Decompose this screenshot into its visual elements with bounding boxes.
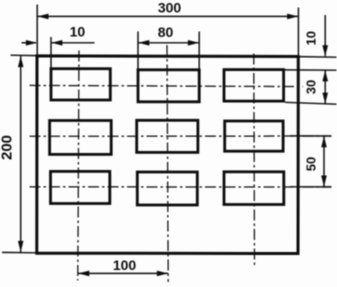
svg-text:80: 80 [158, 24, 174, 40]
dimension 200: bottom extension line [2, 251, 36, 253]
svg-text:100: 100 [113, 257, 137, 273]
hole row2 col1 [50, 121, 112, 155]
dimension 200: up arrowhead [18, 56, 24, 67]
dimension 200: down arrowhead [18, 241, 24, 252]
dimension 10 (top left): extension line at hole edge [50, 37, 52, 68]
plate outline (outer rectangle of part) [37, 56, 299, 254]
dimension 30: hole bottom extension line [285, 102, 337, 104]
centerline row 2 (horizontal dash-dot) [30, 135, 332, 137]
dimension 80: left arrowhead [138, 40, 149, 46]
dimension 10 (top left): right-pointing arrowhead [26, 40, 37, 46]
dimension 80: right extension line [198, 32, 200, 69]
hole row1 col1 [51, 69, 110, 100]
svg-text:300: 300 [158, 0, 182, 16]
centerline row 1 (horizontal dash-dot) [30, 85, 304, 86]
dimension 50: top extension line (solid, right of plate) [290, 135, 332, 137]
dimension 10 (top left): outside arrow line [22, 42, 37, 44]
centerline column 2 (vertical dash-dot) [167, 45, 168, 282]
centerline row 3 (horizontal dash-dot) [30, 186, 332, 188]
svg-text:10: 10 [70, 24, 86, 40]
dimension 100: left arrowhead [78, 271, 89, 277]
svg-text:200: 200 [0, 135, 16, 160]
dimension 300: dimension line [37, 15, 298, 17]
dimension 300: right arrowhead [287, 14, 298, 20]
dimension 50: up arrowhead [321, 136, 327, 147]
dimension 30: hole top extension line [284, 69, 337, 71]
dimension 200: top extension line [11, 54, 37, 56]
hole row3 col1 [51, 171, 110, 203]
dimension 30: up arrowhead [322, 70, 328, 81]
dimension 10 (top left): tail line [51, 42, 94, 44]
dimension 80: left extension line [137, 32, 139, 69]
dimension 50: down arrowhead [321, 176, 327, 187]
dimension 100: right arrowhead [157, 271, 168, 277]
dimension 50: bottom extension line (solid, right of plate) [290, 186, 332, 188]
dimension 50: dimension line [323, 136, 325, 187]
dimension 300: left arrowhead [37, 14, 48, 20]
svg-text:10: 10 [303, 31, 318, 45]
svg-text:30: 30 [304, 80, 319, 94]
dimension 10 (top right): down arrowhead [322, 45, 328, 56]
dimension 300: left extension line [36, 5, 38, 56]
svg-text:50: 50 [303, 157, 318, 171]
dimension 80: right arrowhead [188, 40, 199, 46]
centerline column 1 (vertical dash-dot) [78, 51, 79, 281]
hole row1 col2 [138, 70, 199, 102]
dimension 10 (top left): left-pointing arrowhead [51, 40, 62, 46]
dimension 200: dimension line [20, 56, 22, 252]
hole row2 col3 [225, 121, 283, 151]
hole row3 col3 [224, 172, 284, 205]
dimension 300: right extension line [297, 8, 299, 57]
hole row3 col2 [137, 172, 197, 205]
dimension 30: down arrowhead [322, 93, 328, 104]
dimension 30: dimension line [324, 70, 326, 104]
dimension 80: dimension line [138, 42, 199, 44]
hole row2 col2 [137, 120, 198, 152]
dimension 10 (top right): top edge extension line [298, 56, 336, 59]
dimension 100: dimension line [78, 272, 168, 274]
centerline column 3 (vertical dash-dot) [253, 54, 256, 267]
dimension 10 (top right): dimension line [324, 15, 326, 56]
hole row1 col3 [224, 70, 284, 102]
